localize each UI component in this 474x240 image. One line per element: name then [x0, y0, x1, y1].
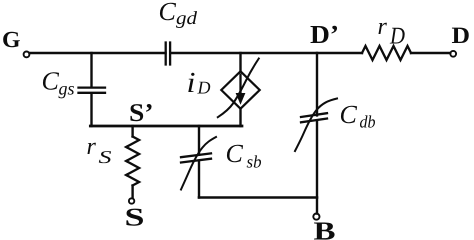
- arrow of iD: [236, 75, 246, 105]
- svg-text:C: C: [159, 0, 177, 26]
- svg-text:B: B: [314, 217, 336, 240]
- wire Csb top: [198, 126, 200, 155]
- svg-text:D’: D’: [310, 20, 339, 49]
- svg-text:r: r: [378, 14, 388, 40]
- wire to D: [411, 52, 450, 54]
- terminal B: [313, 214, 319, 220]
- wire Cgs top: [90, 53, 92, 87]
- svg-text:C: C: [226, 139, 244, 168]
- svg-text:r: r: [87, 134, 97, 160]
- resistor rS: [126, 126, 139, 198]
- svg-text:G: G: [2, 27, 21, 52]
- arrow curve through Cdb: [295, 99, 337, 152]
- capacitor Cdb: [301, 113, 327, 122]
- wire bottom rail: [199, 196, 317, 199]
- svg-text:db: db: [360, 112, 376, 132]
- wire node S' rail: [90, 125, 242, 128]
- svg-text:S: S: [99, 147, 112, 167]
- svg-text:C: C: [42, 66, 60, 95]
- terminal S: [129, 198, 134, 203]
- svg-text:D: D: [197, 78, 211, 98]
- wire Cgs bottom: [90, 94, 92, 126]
- capacitor C1 Cgd: [166, 43, 170, 65]
- svg-text:gs: gs: [59, 78, 75, 98]
- wire Cdb bottom to B: [316, 120, 318, 213]
- resistor rD: [362, 46, 411, 60]
- svg-text:i: i: [187, 67, 196, 99]
- svg-text:C: C: [340, 100, 358, 129]
- wire Csb bottom: [198, 161, 200, 198]
- wire iD bottom: [239, 109, 241, 126]
- current source iD diamond: [221, 71, 259, 108]
- wire D' down to Cdb: [316, 53, 318, 115]
- svg-text:D: D: [452, 23, 471, 49]
- wire iD top: [239, 53, 241, 71]
- capacitor Csb: [181, 153, 211, 162]
- wire top rail right: [170, 52, 362, 54]
- terminal D: [450, 51, 456, 57]
- svg-text:sb: sb: [247, 152, 262, 172]
- arrow curve through Csb: [181, 137, 216, 190]
- svg-text:gd: gd: [176, 9, 198, 29]
- curve through iD source: [218, 59, 259, 118]
- terminal G: [24, 52, 30, 58]
- svg-text:S’: S’: [129, 98, 154, 127]
- svg-text:S: S: [125, 203, 145, 232]
- wire top rail left: [30, 52, 166, 54]
- capacitor Cgs: [79, 88, 106, 93]
- svg-text:D: D: [389, 24, 405, 50]
